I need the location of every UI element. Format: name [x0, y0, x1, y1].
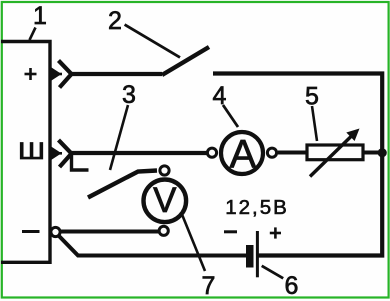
wire from switch 2 to right side, down and along bottom to battery +	[213, 74, 382, 256]
wire rheostat to right bus	[363, 151, 382, 155]
minus sign inside block	[22, 230, 40, 233]
ammeter U1 (A)	[221, 132, 263, 174]
connector socket chevron at Ш terminal	[59, 140, 72, 167]
junction node	[378, 148, 387, 157]
svg-text:12,5В: 12,5В	[225, 196, 289, 219]
switch S3 blade to voltmeter (open)	[88, 171, 157, 198]
connector pin at + terminal	[50, 68, 62, 81]
wire minus terminal to voltmeter	[60, 230, 159, 234]
svg-text:7: 7	[202, 272, 216, 300]
block minus terminal circle	[51, 227, 60, 236]
leader 6	[262, 266, 284, 279]
battery plus polarity sign	[270, 227, 281, 238]
voltmeter U2 (V)	[144, 180, 187, 223]
battery GB (6): negative short thick plate	[246, 245, 254, 268]
fixed contact of switch 3 (L-shape)	[72, 154, 89, 170]
svg-text:A: A	[229, 133, 256, 177]
voltmeter bottom terminal	[159, 226, 168, 235]
svg-text:2: 2	[108, 7, 122, 35]
battery positive long plate	[256, 231, 259, 277]
battery minus polarity sign	[224, 230, 237, 233]
svg-text:Ш: Ш	[18, 138, 45, 165]
svg-text:V: V	[153, 181, 177, 220]
wire from + connector to switch 2	[70, 72, 162, 76]
svg-text:1: 1	[33, 2, 47, 30]
leader 3	[110, 105, 128, 170]
leader 5	[312, 106, 317, 141]
svg-text:3: 3	[122, 81, 136, 109]
ammeter right terminal	[267, 148, 276, 157]
plus sign inside block	[25, 68, 37, 80]
wire ammeter to rheostat	[278, 151, 307, 155]
wire from Ш connector to ammeter	[70, 151, 207, 155]
wire minus terminal down to battery - plate	[59, 236, 247, 256]
voltmeter top terminal	[160, 166, 169, 175]
connector socket chevron at + terminal	[59, 61, 72, 88]
svg-text:6: 6	[285, 272, 299, 300]
rheostat arrow shaft	[310, 137, 351, 177]
leader 2	[125, 25, 180, 58]
leader 4	[223, 105, 238, 127]
rheostat R1 body	[307, 145, 363, 160]
ammeter left terminal	[207, 148, 216, 157]
connector pin at Ш terminal	[50, 147, 62, 160]
rheostat arrow head	[346, 129, 359, 142]
device block (left rectangle, component 1)	[1, 42, 50, 263]
leader 1	[30, 28, 36, 41]
leader 7	[181, 212, 205, 271]
switch S2 blade (open)	[162, 47, 209, 75]
